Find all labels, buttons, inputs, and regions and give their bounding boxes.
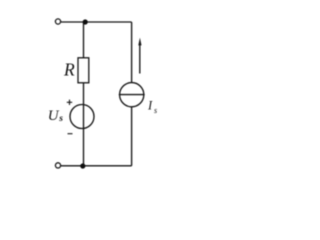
svg-text:I: I	[147, 99, 153, 113]
svg-text:R: R	[63, 60, 75, 80]
svg-text:s: s	[58, 114, 63, 124]
svg-text:s: s	[154, 106, 157, 115]
svg-text:U: U	[48, 108, 60, 124]
